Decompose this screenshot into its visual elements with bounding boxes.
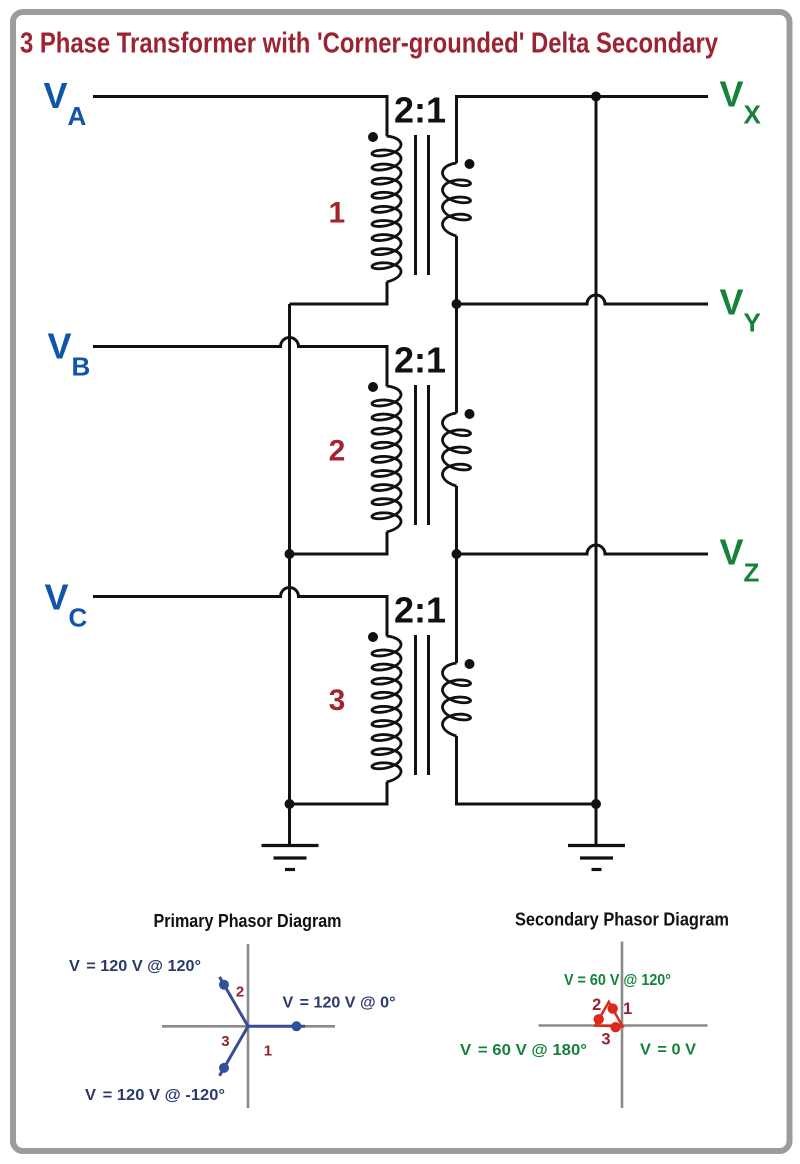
- wire T1-T2 secondary link: [455, 304, 458, 413]
- phasor 3 dot: [219, 1063, 229, 1073]
- primary phasor axes: [162, 944, 335, 1108]
- transformer T3 primary winding: [372, 635, 401, 783]
- wire VB input with hop: [93, 338, 387, 387]
- sec phasor 3 dot: [610, 1022, 620, 1032]
- wire VZ output with hop: [457, 545, 709, 554]
- primary phasor vectors: [220, 977, 306, 1076]
- wire left rail: [288, 304, 291, 846]
- svg-text:1: 1: [328, 197, 345, 230]
- junction left rail bottom: [285, 799, 295, 809]
- wire VY output with hop: [457, 295, 709, 304]
- svg-text:2: 2: [592, 996, 601, 1014]
- wire T2 secondary bottom: [455, 486, 458, 554]
- phasor 2 dot: [219, 980, 229, 990]
- svg-text:V = 120 V @ 120°: V = 120 V @ 120°: [69, 958, 201, 975]
- junction VZ node: [452, 549, 462, 559]
- transformer T3 secondary winding: [443, 662, 471, 737]
- svg-text:V = 120 V @ 0°: V = 120 V @ 0°: [283, 995, 396, 1012]
- wire right rail: [595, 97, 598, 846]
- svg-text:2: 2: [329, 435, 346, 468]
- svg-text:3: 3: [221, 1033, 229, 1050]
- svg-text:V = 60 V @ 180°: V = 60 V @ 180°: [460, 1042, 587, 1059]
- T2 primary polarity dot: [368, 382, 378, 392]
- wire VA input: [93, 97, 387, 137]
- ground right: [568, 846, 625, 870]
- junction right rail bottom: [591, 799, 601, 809]
- svg-text:2:1: 2:1: [394, 90, 446, 131]
- junction left rail T2: [285, 549, 295, 559]
- svg-text:V = 0 V: V = 0 V: [640, 1042, 696, 1059]
- T1 secondary polarity dot: [465, 159, 475, 169]
- svg-text:1: 1: [623, 1000, 632, 1018]
- wire T2-T3 secondary link: [455, 554, 458, 663]
- transformer T1 core: [416, 135, 429, 275]
- wire VC input with hop: [93, 588, 387, 637]
- sec phasor 1 dot: [608, 1003, 618, 1013]
- wire T1 secondary bottom: [455, 236, 458, 304]
- T3 secondary polarity dot: [465, 659, 475, 669]
- svg-text:1: 1: [264, 1043, 272, 1060]
- transformer T1 secondary winding: [443, 162, 471, 237]
- wire T3 primary bottom to left rail: [290, 782, 388, 804]
- phasor 1 dot: [292, 1021, 302, 1031]
- svg-text:2:1: 2:1: [394, 590, 446, 631]
- wire top line secondary to VX: [457, 97, 709, 164]
- sec phasor 2 dot: [594, 1014, 604, 1024]
- svg-text:V = 120 V @ -120°: V = 120 V @ -120°: [85, 1087, 225, 1104]
- svg-text:2:1: 2:1: [394, 340, 446, 381]
- secondary phasor axes: [539, 942, 708, 1109]
- svg-text:Primary Phasor Diagram: Primary Phasor Diagram: [154, 910, 342, 931]
- transformer T2 core: [416, 385, 429, 525]
- wire T3 secondary bottom to right rail: [457, 736, 597, 804]
- svg-text:3: 3: [601, 1031, 610, 1049]
- transformer T1 primary winding: [372, 135, 401, 283]
- junction top right rail: [591, 92, 601, 102]
- T2 secondary polarity dot: [465, 409, 475, 419]
- svg-text:3 Phase Transformer with 'Corn: 3 Phase Transformer with 'Corner-grounde…: [20, 28, 718, 60]
- svg-text:Secondary Phasor Diagram: Secondary Phasor Diagram: [515, 909, 729, 930]
- svg-text:2: 2: [236, 984, 244, 1001]
- wire T2 primary bottom to left rail: [290, 532, 388, 554]
- T3 primary polarity dot: [368, 632, 378, 642]
- svg-text:3: 3: [329, 684, 346, 717]
- junction VY node: [452, 299, 462, 309]
- transformer T2 primary winding: [372, 385, 401, 533]
- T1 primary polarity dot: [368, 132, 378, 142]
- ground left: [262, 846, 319, 870]
- wire T1 primary bottom to left rail: [290, 282, 388, 304]
- transformer T3 core: [416, 635, 429, 775]
- transformer T2 secondary winding: [443, 412, 471, 487]
- svg-text:V = 60 V @ 120°: V = 60 V @ 120°: [564, 972, 671, 989]
- secondary phasor triangle: [595, 1002, 622, 1026]
